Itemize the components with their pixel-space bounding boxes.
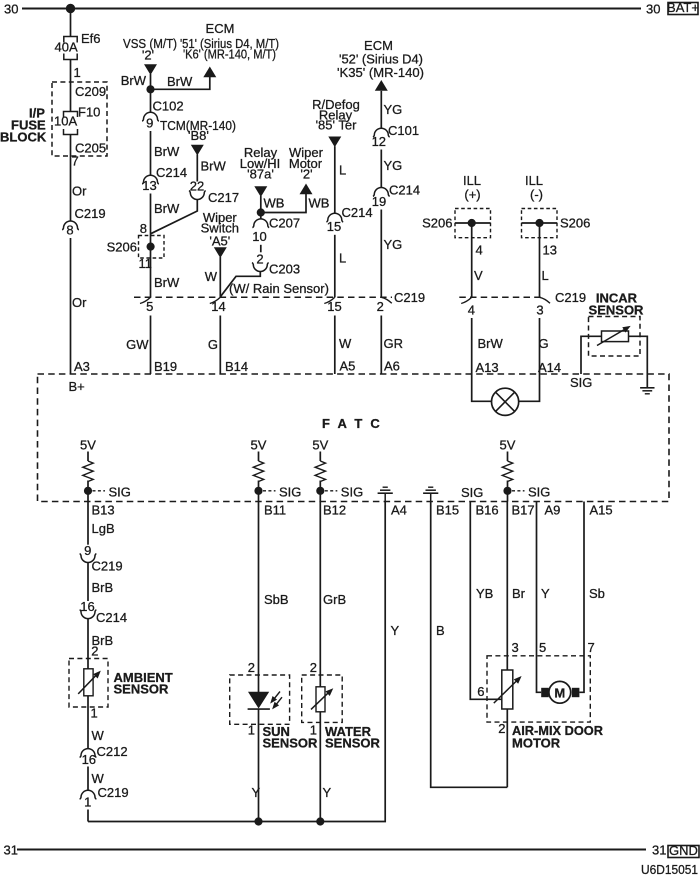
- svg-text:SbB: SbB: [264, 592, 289, 607]
- svg-text:A15: A15: [590, 503, 613, 518]
- svg-text:F A T C: F A T C: [322, 416, 382, 431]
- svg-text:BrW: BrW: [154, 275, 180, 290]
- svg-text:'85' Ter: '85' Ter: [316, 118, 358, 133]
- svg-text:9: 9: [146, 116, 153, 131]
- svg-text:16: 16: [80, 599, 94, 614]
- svg-text:C219: C219: [98, 785, 129, 800]
- svg-text:S206: S206: [422, 216, 452, 231]
- svg-text:W: W: [205, 269, 218, 284]
- svg-text:1: 1: [91, 706, 98, 721]
- svg-text:C214: C214: [342, 205, 373, 220]
- svg-text:SIG: SIG: [341, 485, 363, 500]
- svg-text:B+: B+: [69, 379, 85, 394]
- svg-text:L: L: [339, 163, 346, 178]
- svg-text:C217: C217: [208, 190, 239, 205]
- svg-text:19: 19: [372, 194, 386, 209]
- svg-text:Sb: Sb: [589, 586, 605, 601]
- svg-text:A4: A4: [391, 503, 407, 518]
- svg-text:S206: S206: [107, 240, 137, 255]
- svg-text:B17: B17: [512, 503, 535, 518]
- svg-text:C214: C214: [96, 610, 127, 625]
- svg-text:2: 2: [377, 299, 384, 314]
- svg-text:A9: A9: [545, 503, 561, 518]
- svg-text:13: 13: [543, 243, 557, 258]
- svg-text:MOTOR: MOTOR: [512, 735, 561, 750]
- svg-text:6: 6: [477, 684, 484, 699]
- svg-text:W: W: [92, 728, 105, 743]
- svg-text:16: 16: [82, 752, 96, 767]
- svg-text:A6: A6: [384, 359, 400, 374]
- svg-text:SENSOR: SENSOR: [114, 682, 170, 697]
- svg-text:'87a': '87a': [247, 167, 274, 182]
- svg-text:30: 30: [646, 2, 660, 17]
- svg-text:2: 2: [310, 660, 317, 675]
- svg-text:SENSOR: SENSOR: [325, 735, 381, 750]
- svg-text:'2': '2': [300, 167, 312, 182]
- svg-text:9: 9: [84, 543, 91, 558]
- svg-text:B19: B19: [154, 359, 177, 374]
- svg-text:22: 22: [190, 178, 204, 193]
- svg-text:A13: A13: [476, 360, 499, 375]
- svg-text:YG: YG: [384, 158, 403, 173]
- svg-text:F10: F10: [78, 105, 100, 120]
- svg-text:4: 4: [476, 243, 483, 258]
- svg-text:BrW: BrW: [167, 74, 193, 89]
- svg-text:'K6' (MR-140, M/T): 'K6' (MR-140, M/T): [183, 47, 276, 62]
- svg-text:BrW: BrW: [154, 201, 180, 216]
- svg-text:3: 3: [512, 640, 519, 655]
- svg-text:BrW: BrW: [478, 336, 504, 351]
- svg-text:GW: GW: [126, 337, 149, 352]
- svg-text:12: 12: [372, 134, 386, 149]
- svg-text:ECM: ECM: [206, 21, 235, 36]
- svg-text:4: 4: [468, 302, 475, 317]
- svg-text:'2': '2': [142, 48, 154, 63]
- svg-text:ILL: ILL: [463, 173, 481, 188]
- svg-text:SENSOR: SENSOR: [589, 303, 645, 318]
- svg-text:10A: 10A: [54, 114, 77, 129]
- svg-text:B16: B16: [476, 503, 499, 518]
- svg-text:5V: 5V: [312, 438, 328, 453]
- svg-text:G: G: [539, 336, 549, 351]
- svg-text:V: V: [474, 268, 483, 283]
- svg-text:30: 30: [4, 2, 18, 17]
- svg-text:LgB: LgB: [92, 521, 115, 536]
- svg-text:40A: 40A: [55, 40, 78, 55]
- svg-text:C209: C209: [75, 84, 106, 99]
- svg-text:C102: C102: [153, 99, 184, 114]
- svg-text:C203: C203: [269, 262, 300, 277]
- svg-text:3: 3: [536, 302, 543, 317]
- svg-text:11: 11: [139, 256, 153, 271]
- svg-text:1: 1: [310, 723, 317, 738]
- svg-text:ILL: ILL: [525, 173, 543, 188]
- svg-text:7: 7: [588, 640, 595, 655]
- svg-text:SIG: SIG: [109, 485, 131, 500]
- svg-text:'A5': 'A5': [209, 234, 230, 249]
- svg-text:1: 1: [84, 795, 91, 810]
- svg-text:B13: B13: [92, 503, 115, 518]
- svg-text:SIG: SIG: [461, 485, 483, 500]
- svg-text:5V: 5V: [251, 438, 267, 453]
- svg-text:Y: Y: [541, 586, 550, 601]
- svg-text:C214: C214: [389, 183, 420, 198]
- svg-text:C219: C219: [92, 559, 123, 574]
- svg-text:5V: 5V: [500, 438, 516, 453]
- svg-text:U6D15051: U6D15051: [641, 862, 698, 877]
- svg-text:Or: Or: [72, 184, 87, 199]
- svg-text:WB: WB: [309, 196, 330, 211]
- svg-text:10: 10: [252, 229, 266, 244]
- svg-text:A14: A14: [538, 360, 561, 375]
- svg-text:5: 5: [146, 299, 153, 314]
- svg-text:Br: Br: [512, 586, 526, 601]
- svg-text:BrW: BrW: [121, 73, 147, 88]
- svg-text:W: W: [339, 336, 352, 351]
- svg-text:GR: GR: [384, 336, 404, 351]
- svg-text:B15: B15: [436, 503, 459, 518]
- svg-text:5V: 5V: [80, 438, 96, 453]
- svg-text:YB: YB: [476, 586, 493, 601]
- svg-text:C219: C219: [394, 290, 425, 305]
- svg-text:(+): (+): [464, 187, 480, 202]
- svg-text:L: L: [542, 268, 549, 283]
- svg-text:GND: GND: [669, 843, 698, 858]
- svg-text:Ef6: Ef6: [81, 31, 101, 46]
- svg-text:Y: Y: [323, 785, 332, 800]
- svg-text:2: 2: [498, 721, 505, 736]
- svg-text:SIG: SIG: [570, 375, 592, 390]
- svg-text:G: G: [208, 337, 218, 352]
- svg-text:5: 5: [539, 640, 546, 655]
- svg-text:B14: B14: [225, 359, 248, 374]
- svg-text:GrB: GrB: [323, 592, 346, 607]
- svg-text:WB: WB: [264, 196, 285, 211]
- svg-text:SIG: SIG: [528, 485, 550, 500]
- svg-text:SIG: SIG: [279, 485, 301, 500]
- svg-text:2: 2: [256, 252, 263, 267]
- svg-text:C101: C101: [388, 123, 419, 138]
- svg-text:Or: Or: [72, 295, 87, 310]
- svg-text:8: 8: [140, 221, 147, 236]
- svg-text:14: 14: [211, 299, 225, 314]
- svg-text:C214: C214: [156, 165, 187, 180]
- svg-text:BrW: BrW: [154, 144, 180, 159]
- svg-text:C219: C219: [75, 206, 106, 221]
- svg-text:YG: YG: [384, 102, 403, 117]
- svg-text:15: 15: [327, 219, 341, 234]
- svg-text:BrB: BrB: [92, 580, 114, 595]
- svg-text:(W/ Rain Sensor): (W/ Rain Sensor): [229, 281, 329, 296]
- svg-text:15: 15: [327, 299, 341, 314]
- svg-text:31: 31: [652, 843, 666, 858]
- svg-text:(-): (-): [530, 187, 543, 202]
- svg-text:2: 2: [248, 660, 255, 675]
- svg-text:C219: C219: [555, 290, 586, 305]
- svg-text:W: W: [92, 771, 105, 786]
- svg-text:B11: B11: [264, 503, 286, 518]
- svg-text:BrW: BrW: [201, 159, 227, 174]
- svg-text:M: M: [554, 686, 565, 701]
- svg-text:31: 31: [4, 843, 18, 858]
- svg-text:C205: C205: [75, 141, 106, 156]
- svg-text:13: 13: [142, 178, 156, 193]
- svg-text:'K35' (MR-140): 'K35' (MR-140): [337, 65, 424, 80]
- svg-text:Y: Y: [252, 785, 261, 800]
- svg-text:SENSOR: SENSOR: [263, 735, 319, 750]
- svg-text:YG: YG: [384, 237, 403, 252]
- svg-text:1: 1: [74, 65, 81, 80]
- svg-text:B: B: [436, 623, 445, 638]
- svg-text:A3: A3: [74, 359, 90, 374]
- svg-text:1: 1: [248, 723, 255, 738]
- svg-text:C207: C207: [269, 216, 300, 231]
- svg-text:7: 7: [72, 154, 79, 169]
- svg-text:BAT+: BAT+: [667, 0, 699, 15]
- svg-text:BLOCK: BLOCK: [0, 130, 47, 145]
- svg-text:'B8': 'B8': [188, 128, 209, 143]
- svg-text:8: 8: [66, 222, 73, 237]
- svg-text:A5: A5: [340, 359, 356, 374]
- svg-text:S206: S206: [560, 216, 590, 231]
- svg-text:2: 2: [91, 644, 98, 659]
- svg-text:B12: B12: [323, 503, 346, 518]
- svg-text:C212: C212: [97, 744, 128, 759]
- svg-text:L: L: [339, 251, 346, 266]
- svg-text:Y: Y: [391, 623, 400, 638]
